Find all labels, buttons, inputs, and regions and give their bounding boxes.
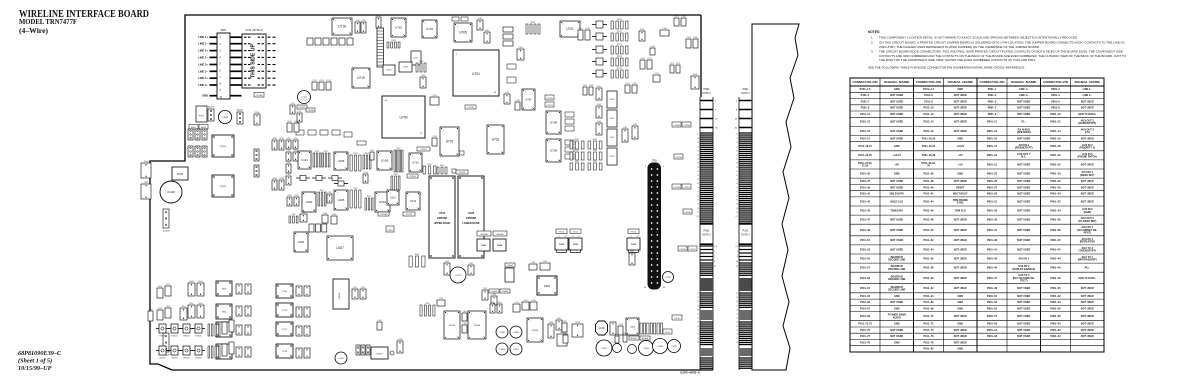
svg-text:U107: U107 <box>336 246 344 250</box>
capacitor C1409 <box>510 326 522 338</box>
capacitor C513b <box>304 348 310 358</box>
resistor network R107 <box>394 148 403 172</box>
svg-text:C1700: C1700 <box>467 107 474 109</box>
capacitor C112 <box>286 162 291 173</box>
svg-text:1: 1 <box>530 320 531 322</box>
svg-text:57: 57 <box>736 171 738 173</box>
svg-text:RV104: RV104 <box>196 335 202 337</box>
svg-text:P101–78: P101–78 <box>923 342 934 345</box>
jumper A1000 <box>237 112 243 124</box>
svg-text:NOT USED: NOT USED <box>1017 315 1030 318</box>
capacitor C152 <box>507 77 516 83</box>
label C1099 <box>682 122 691 127</box>
svg-text:C197: C197 <box>370 150 374 152</box>
svg-text:P901–1: P901–1 <box>988 88 997 91</box>
svg-text:C202: C202 <box>483 288 487 290</box>
svg-text:DECODE LINE: DECODE LINE <box>888 278 905 281</box>
svg-text:65: 65 <box>697 322 699 324</box>
capacitor C500a <box>236 284 242 294</box>
svg-text:U744 (NOTE 2): U744 (NOTE 2) <box>245 29 263 32</box>
svg-text:C158: C158 <box>640 29 644 31</box>
capacitor C523 <box>157 308 163 320</box>
svg-text:R102: R102 <box>623 333 627 335</box>
svg-text:DECODE LINE: DECODE LINE <box>888 268 905 271</box>
capacitor C156 <box>515 100 520 110</box>
svg-text:NOT USED: NOT USED <box>954 121 967 124</box>
svg-text:(DESK SET): (DESK SET) <box>1080 174 1094 177</box>
svg-text:61: 61 <box>736 175 738 177</box>
svg-text:T1001: T1001 <box>220 186 227 188</box>
svg-text:P101–9: P101–9 <box>861 107 870 110</box>
svg-text:C146: C146 <box>421 75 425 77</box>
capacitor C217 <box>578 28 583 40</box>
resistor R175 <box>328 176 342 181</box>
svg-text:NOT USED: NOT USED <box>1017 301 1030 304</box>
svg-text:C1447: C1447 <box>338 358 343 360</box>
svg-text:P901–7: P901–7 <box>988 107 997 110</box>
capacitor C530b <box>229 320 234 332</box>
svg-text:RESET: RESET <box>956 186 965 189</box>
svg-text:C168: C168 <box>662 28 666 30</box>
capacitor C502b <box>245 325 251 335</box>
capacitor C520 <box>157 286 163 298</box>
resistor network R521b <box>215 346 220 358</box>
svg-text:101: 101 <box>696 216 699 218</box>
resistor network R521a <box>208 346 213 358</box>
svg-text:8: 8 <box>456 153 457 155</box>
resistor network R111 <box>289 214 298 223</box>
varistor RV101 <box>156 324 169 337</box>
svg-text:R503: R503 <box>198 303 202 305</box>
svg-text:89: 89 <box>736 204 738 206</box>
svg-text:THIS COMPONENT LOCATION DETAIL: THIS COMPONENT LOCATION DETAIL IS NOT DR… <box>879 36 1078 40</box>
svg-text:U709: U709 <box>550 149 558 153</box>
resistor R173 <box>296 176 310 181</box>
svg-text:C1098: C1098 <box>673 125 680 127</box>
svg-text:P901–30: P901–30 <box>1050 193 1061 196</box>
svg-text:NOT USED: NOT USED <box>1081 323 1094 326</box>
svg-text:GND: GND <box>957 88 963 91</box>
svg-text:NOT USED: NOT USED <box>1081 301 1094 304</box>
capacitor C153 <box>504 92 510 104</box>
svg-text:NOT USED: NOT USED <box>890 121 903 124</box>
capacitor C1500 <box>218 110 231 123</box>
capacitor C203 <box>491 294 497 305</box>
varistor RV204 <box>192 346 205 359</box>
transformer T512 <box>276 322 293 336</box>
svg-text:P901–3: P901–3 <box>988 94 997 97</box>
resistor network R520b <box>215 324 220 336</box>
svg-text:C206: C206 <box>531 300 535 302</box>
svg-text:73: 73 <box>697 187 699 189</box>
svg-text:C1107: C1107 <box>689 249 696 251</box>
svg-text:U701: U701 <box>472 72 480 76</box>
svg-text:U1507: U1507 <box>376 354 383 356</box>
svg-text:33: 33 <box>697 146 699 148</box>
pad PT01 <box>196 106 207 122</box>
svg-text:8: 8 <box>419 169 420 171</box>
svg-text:P901–49: P901–49 <box>987 287 998 290</box>
svg-text:68P81090E39–C: 68P81090E39–C <box>18 350 62 357</box>
svg-text:P101–2,4: P101–2,4 <box>923 88 934 91</box>
svg-text:C114: C114 <box>294 138 298 140</box>
capacitor C522 <box>148 309 153 321</box>
capacitor C210 <box>290 103 295 114</box>
label B102 <box>199 125 208 130</box>
svg-text:GND: GND <box>894 323 900 326</box>
svg-text:P101–14: P101–14 <box>923 121 934 124</box>
cutaway board-back outline <box>752 24 799 370</box>
label P/O5 <box>672 315 682 320</box>
jumper JU1501 <box>361 345 365 355</box>
svg-text:C1720: C1720 <box>546 98 553 100</box>
svg-text:P101–64: P101–64 <box>923 295 934 298</box>
svg-text:89: 89 <box>697 204 699 206</box>
svg-text:P101–41: P101–41 <box>860 193 871 196</box>
resistor R102 <box>623 333 627 342</box>
svg-text:RV204: RV204 <box>196 357 202 359</box>
capacitor C1671 <box>565 147 574 152</box>
capacitor C1411 <box>562 321 567 332</box>
svg-text:G102: G102 <box>631 244 637 246</box>
svg-text:U715: U715 <box>395 26 403 30</box>
capacitor C158 <box>639 29 645 41</box>
svg-text:NOT USED: NOT USED <box>890 107 903 110</box>
svg-text:(RX/ENCRYPT): (RX/ENCRYPT) <box>1015 147 1033 150</box>
svg-text:C153: C153 <box>505 92 509 94</box>
capacitor C104 <box>628 345 637 354</box>
resistor group R140-R145 <box>307 38 353 45</box>
svg-text:PL+: PL+ <box>1085 267 1090 270</box>
capacitor C1447 <box>335 352 347 364</box>
capacitor C1449 <box>668 340 681 353</box>
transformer T513 <box>276 344 293 358</box>
resistor R1740 <box>592 70 607 77</box>
svg-text:45: 45 <box>736 301 738 303</box>
IC U716 <box>422 20 437 38</box>
IC U1506 <box>444 311 460 339</box>
svg-text:C520: C520 <box>158 286 162 288</box>
svg-text:T511: T511 <box>282 310 288 312</box>
label C1720 <box>545 95 554 100</box>
svg-text:NOT USED: NOT USED <box>954 229 967 232</box>
IC U702 <box>487 125 504 154</box>
svg-text:P101–65: P101–65 <box>860 301 871 304</box>
svg-text:8: 8 <box>417 207 418 209</box>
svg-text:C172: C172 <box>670 63 674 65</box>
svg-text:10/15/99–UP: 10/15/99–UP <box>18 365 52 372</box>
resistor network R104 <box>350 153 361 171</box>
svg-text:P101–5: P101–5 <box>861 94 870 97</box>
capacitor C177 <box>674 16 679 26</box>
capacitor C111 <box>286 150 291 161</box>
svg-text:P901–48: P901–48 <box>1050 277 1061 280</box>
svg-text:C150: C150 <box>518 47 522 49</box>
svg-text:37: 37 <box>697 293 699 295</box>
svg-text:GND: GND <box>957 307 963 310</box>
wire stub LINE 4+ to J500 <box>210 77 217 79</box>
svg-text:C1721: C1721 <box>546 105 553 107</box>
svg-text:MODEL TRN7477F: MODEL TRN7477F <box>19 19 77 26</box>
capacitor C150 <box>517 47 524 60</box>
svg-text:N.C.: N.C. <box>1021 156 1026 159</box>
svg-text:LINE 3+: LINE 3+ <box>198 63 208 67</box>
svg-text:NOT USED: NOT USED <box>890 113 903 116</box>
svg-text:81: 81 <box>697 196 699 198</box>
svg-text:NOT USED: NOT USED <box>1081 107 1094 110</box>
svg-text:T1000: T1000 <box>220 146 227 148</box>
svg-text:65: 65 <box>736 179 738 181</box>
svg-text:PT01: PT01 <box>199 116 205 118</box>
label JU1502 <box>493 231 507 236</box>
capacitor C187 <box>556 318 562 330</box>
svg-text:29: 29 <box>736 142 738 144</box>
svg-text:49: 49 <box>697 163 699 165</box>
svg-text:C1712: C1712 <box>406 214 413 216</box>
svg-text:LINE 2−: LINE 2− <box>198 55 208 59</box>
capacitor C201 <box>294 195 299 206</box>
svg-text:J1001: J1001 <box>144 182 149 184</box>
svg-text:TDM DATA: TDM DATA <box>890 209 903 212</box>
capacitor C1412 <box>563 333 568 343</box>
IC U105 <box>334 190 348 210</box>
capacitor C102 <box>596 340 612 356</box>
capacitor C211 <box>297 111 302 122</box>
IC U708 <box>546 111 561 134</box>
IC U703 <box>440 127 459 156</box>
svg-text:P901–9: P901–9 <box>988 113 997 116</box>
svg-text:P101–67: P101–67 <box>860 307 871 310</box>
svg-text:NOT USED: NOT USED <box>1081 180 1094 183</box>
svg-text:C161: C161 <box>597 86 601 88</box>
svg-text:NOT USED: NOT USED <box>954 342 967 345</box>
svg-text:C155: C155 <box>432 136 436 138</box>
capacitor C1101 <box>272 138 277 150</box>
svg-text:(TO DESK SET): (TO DESK SET) <box>1078 220 1096 223</box>
IC U701 <box>453 50 499 96</box>
capacitor C115 <box>293 150 298 161</box>
svg-text:NOT USED: NOT USED <box>890 138 903 141</box>
capacitor C123 <box>332 130 340 135</box>
svg-text:P101–56: P101–56 <box>923 257 934 260</box>
varistor RV103 <box>180 324 193 337</box>
svg-text:NOT USED: NOT USED <box>1017 101 1030 104</box>
svg-text:C1410: C1410 <box>499 332 505 334</box>
capacitor C175 <box>625 83 630 93</box>
svg-text:NOT USED: NOT USED <box>1017 248 1030 251</box>
resistor network R151 <box>437 165 447 174</box>
svg-text:1: 1 <box>549 113 550 115</box>
label C1706 <box>407 174 418 178</box>
svg-text:U1505: U1505 <box>532 330 539 332</box>
svg-text:C1710: C1710 <box>420 149 427 151</box>
IC U741 <box>607 110 617 127</box>
resistor R158 <box>691 74 699 89</box>
svg-text:(LS): (LS) <box>1085 131 1090 134</box>
IC U1508 <box>468 311 486 339</box>
svg-text:UPPER BANK: UPPER BANK <box>434 222 451 225</box>
svg-text:C1500: C1500 <box>222 117 229 119</box>
resistor network R146 <box>387 40 400 48</box>
svg-text:P901–25: P901–25 <box>987 180 998 183</box>
svg-text:J1000: J1000 <box>144 161 149 163</box>
svg-text:P/O JU: P/O JU <box>559 232 565 234</box>
svg-text:P101–37: P101–37 <box>860 180 871 183</box>
svg-text:P101–77: P101–77 <box>860 335 871 338</box>
svg-text:C1713: C1713 <box>459 172 466 174</box>
svg-text:C1102: C1102 <box>279 138 284 140</box>
svg-text:NOT USED: NOT USED <box>1081 307 1094 310</box>
label C1712 <box>403 212 415 216</box>
svg-text:JU1502: JU1502 <box>496 234 504 236</box>
svg-text:U1500: U1500 <box>339 292 341 299</box>
svg-text:P101–22,24: P101–22,24 <box>922 145 936 148</box>
svg-text:C220: C220 <box>490 302 494 304</box>
svg-text:JU1008: JU1008 <box>163 231 171 233</box>
svg-text:U705: U705 <box>459 31 467 35</box>
capacitor C1470 <box>450 267 466 283</box>
svg-text:C184: C184 <box>462 311 466 313</box>
svg-text:P101–10: P101–10 <box>923 107 934 110</box>
svg-text:NOT USED: NOT USED <box>954 113 967 116</box>
svg-text:NOT USED: NOT USED <box>890 101 903 104</box>
svg-text:53: 53 <box>697 167 699 169</box>
wire stubs right of U744 <box>268 37 276 85</box>
svg-text:1,3: 1,3 <box>714 246 717 248</box>
svg-text:C181: C181 <box>445 261 449 263</box>
edge connector P901/P101 back side <box>735 97 752 370</box>
label C1106 <box>678 246 687 251</box>
svg-text:P901–29: P901–29 <box>987 193 998 196</box>
svg-text:C111: C111 <box>287 150 291 152</box>
resistor network R148 <box>416 61 426 72</box>
svg-text:41: 41 <box>736 155 738 157</box>
svg-text:NOT USED: NOT USED <box>954 219 967 222</box>
capacitor C171 <box>647 58 652 69</box>
IC U1507 <box>371 347 394 359</box>
label C1711 <box>451 151 464 155</box>
resistor network R155 <box>588 150 602 160</box>
svg-text:R147: R147 <box>485 30 489 32</box>
IC U103 <box>302 192 316 212</box>
svg-text:77: 77 <box>736 334 738 336</box>
varistor RV202 <box>168 346 181 359</box>
svg-text:NOT USED: NOT USED <box>1017 209 1030 212</box>
svg-text:P901–41: P901–41 <box>987 248 998 251</box>
svg-text:93: 93 <box>697 208 699 210</box>
svg-text:81: 81 <box>697 338 699 340</box>
capacitor C206 <box>530 300 537 310</box>
svg-text:R101: R101 <box>615 334 619 336</box>
capacitor C155 <box>432 136 437 146</box>
svg-text:NOT USED: NOT USED <box>1081 315 1094 318</box>
svg-text:P901–61: P901–61 <box>987 329 998 332</box>
capacitor C202 <box>482 288 488 300</box>
svg-text:P101–68: P101–68 <box>923 307 934 310</box>
svg-text:P101–18,20: P101–18,20 <box>922 138 936 141</box>
svg-text:P101–60: P101–60 <box>923 277 934 280</box>
capacitor C190 <box>540 261 550 270</box>
connector P/O J1001 <box>141 182 151 199</box>
svg-text:NOT USED: NOT USED <box>1081 287 1094 290</box>
svg-text:P901–39: P901–39 <box>987 239 998 242</box>
svg-text:P901–22: P901–22 <box>1050 163 1061 166</box>
svg-text:77: 77 <box>736 191 738 193</box>
svg-text:P101–39: P101–39 <box>860 186 871 189</box>
svg-text:P101–62: P101–62 <box>923 287 934 290</box>
svg-text:NOT USED: NOT USED <box>890 301 903 304</box>
capacitor C144 <box>461 17 468 21</box>
wire stub LINE 3- to J500 <box>210 70 217 72</box>
svg-text:NOT USED: NOT USED <box>1017 138 1030 141</box>
svg-text:NOT USED: NOT USED <box>954 335 967 338</box>
svg-text:33: 33 <box>736 146 738 148</box>
capacitor C197 <box>370 150 374 160</box>
capacitor C193 <box>377 320 382 330</box>
svg-text:45: 45 <box>697 159 699 161</box>
svg-text:T512: T512 <box>282 329 288 331</box>
capacitor C510a <box>296 286 302 296</box>
svg-text:8: 8 <box>434 35 435 37</box>
capacitor C114 <box>293 138 298 149</box>
resistor network R160 <box>409 254 425 267</box>
varistor RV102 <box>168 324 181 337</box>
jumper A1001 <box>208 109 214 121</box>
svg-text:NOT USED: NOT USED <box>1081 295 1094 298</box>
svg-text:P101: P101 <box>742 229 749 233</box>
svg-text:K500: K500 <box>544 284 551 288</box>
svg-text:C159: C159 <box>583 85 587 87</box>
svg-text:P901–21: P901–21 <box>987 163 998 166</box>
capacitor C512b <box>304 326 310 336</box>
svg-text:C1099: C1099 <box>683 125 690 127</box>
svg-text:GND: GND <box>957 138 963 141</box>
capacitor C218 <box>585 28 590 40</box>
svg-text:C211: C211 <box>298 111 302 113</box>
svg-text:NOT USED: NOT USED <box>1017 193 1030 196</box>
capacitor C220 <box>490 302 495 313</box>
svg-text:C1706: C1706 <box>409 176 416 178</box>
svg-text:21: 21 <box>697 134 699 136</box>
svg-text:RV102: RV102 <box>172 335 178 337</box>
svg-text:1: 1 <box>390 192 391 194</box>
svg-text:1: 1 <box>447 313 448 315</box>
svg-text:P101–42: P101–42 <box>923 193 934 196</box>
svg-text:8: 8 <box>540 339 541 341</box>
svg-text:1.: 1. <box>871 36 874 40</box>
svg-text:U105: U105 <box>338 198 345 202</box>
svg-text:T500: T500 <box>222 289 228 291</box>
svg-text:J500: J500 <box>220 28 226 32</box>
svg-text:THIS SIDE UP: THIS SIDE UP <box>251 43 257 78</box>
svg-text:P101–45: P101–45 <box>860 209 871 212</box>
svg-text:P901–64: P901–64 <box>1050 335 1061 338</box>
svg-text:C1408: C1408 <box>499 349 505 351</box>
svg-text:T513: T513 <box>282 351 288 353</box>
capacitor C804 <box>505 268 514 282</box>
svg-text:8: 8 <box>483 336 484 338</box>
label C1707 <box>297 105 307 109</box>
svg-text:CONNECTOR–PIN: CONNECTOR–PIN <box>980 81 1005 84</box>
svg-text:P901–42: P901–42 <box>1050 248 1061 251</box>
capacitor C1740 <box>254 93 264 98</box>
resistor network R152 <box>570 139 584 149</box>
capacitor C1410 <box>496 326 508 338</box>
label C1098 <box>672 122 681 127</box>
svg-text:8: 8 <box>469 39 470 41</box>
svg-text:C162: C162 <box>597 104 601 106</box>
IC U704 <box>383 65 395 75</box>
